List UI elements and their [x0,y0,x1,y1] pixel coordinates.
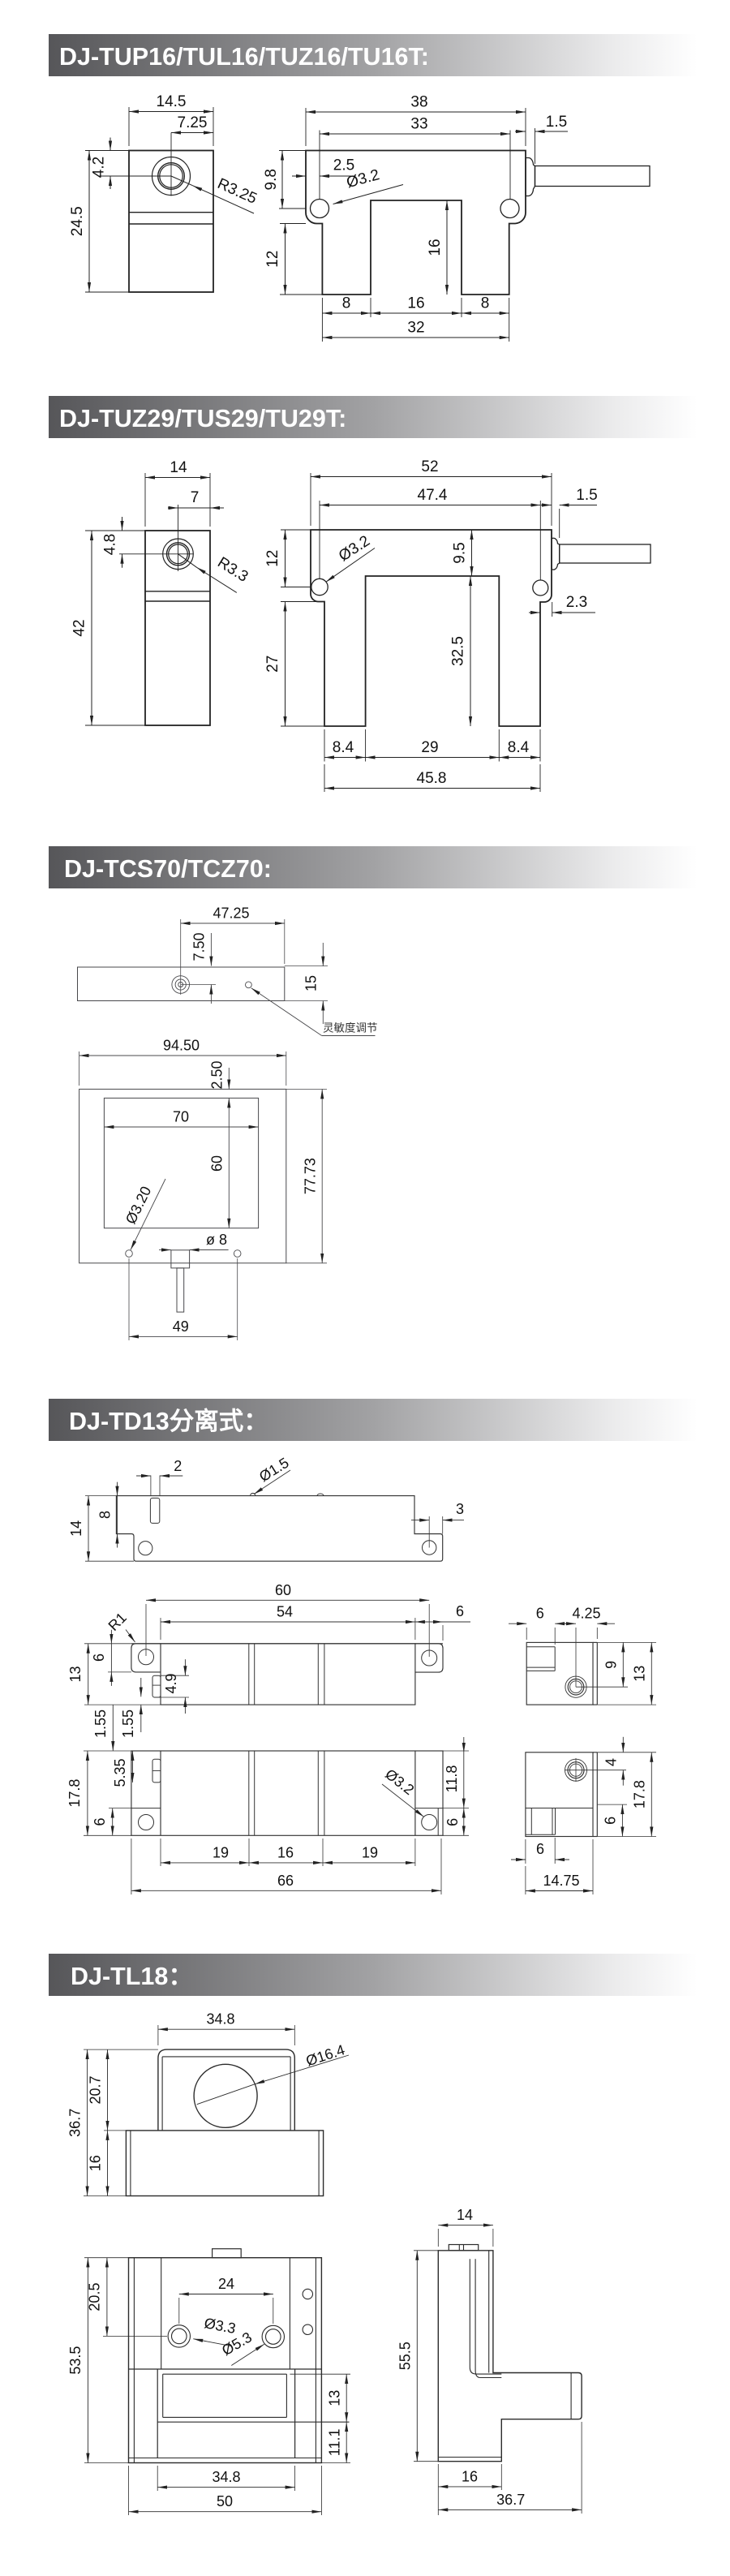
svg-text:66: 66 [277,1873,294,1889]
svg-text:53.5: 53.5 [67,2346,84,2375]
svg-text:6: 6 [456,1603,464,1619]
s2 dim 27 [281,601,318,603]
section header bar 3 [49,846,698,888]
s4 dim 8 [117,1496,118,1534]
svg-text:42: 42 [71,619,88,636]
s5 front upper block [158,2049,294,2131]
s4 dim 4.25 [596,1628,598,1639]
s4 bottom view inner verticals [160,1751,161,1835]
s4 dim 3 [442,1516,444,1534]
s2 dims 8.4 29 8.4 [324,729,325,762]
s3 dim 60 [228,1098,230,1228]
s4 dim 4.9 [161,1675,189,1676]
s4 divisions [248,1644,250,1705]
s3 dim 15 [285,965,328,967]
svg-text:11.8: 11.8 [444,1765,460,1793]
svg-text:12: 12 [264,550,281,567]
s4 end view A groove [526,1646,555,1648]
s5 front lower block [126,2131,323,2196]
s3 dim 7.50 [181,984,216,986]
s5 dim 36.7 [84,2049,158,2050]
s3 dim 47.25 [180,919,182,995]
svg-text:7.50: 7.50 [191,932,208,961]
s3 adjuster hole [246,982,252,988]
s4 dims 19 16 19 [160,1838,161,1866]
svg-text:15: 15 [303,975,320,991]
s4 top view left ear [131,1644,161,1672]
svg-text:34.8: 34.8 [212,2469,240,2485]
s2 hole centerlines [119,553,193,555]
s4 dim 6 end B right [597,1804,627,1805]
s2 dim 7 [178,507,211,509]
s5 side inner lines [488,2251,490,2373]
s4 dim 5.35 [131,1751,133,1783]
svg-text:7: 7 [191,489,200,506]
svg-text:14: 14 [68,1520,84,1537]
svg-text:2.5: 2.5 [333,157,354,174]
s4 side view outline [116,1496,442,1562]
s5 dim 14 [437,2229,439,2247]
s3 dim 77.73 [286,1088,327,1090]
s4 dim 13 left [84,1643,131,1645]
s5 top tab [213,2249,242,2258]
section header bar 1 [49,34,698,76]
svg-text:5.35: 5.35 [112,1758,128,1787]
svg-text:8.4: 8.4 [508,739,530,756]
svg-text:33: 33 [410,116,427,133]
svg-text:24.5: 24.5 [69,206,86,236]
svg-text:DJ-TL18：: DJ-TL18： [71,1963,193,1990]
s5 lens circle [194,2064,257,2127]
s2 dim 52 [310,473,311,526]
svg-text:19: 19 [362,1844,378,1860]
svg-text:DJ-TUP16/TUL16/TUZ16/TU16T:: DJ-TUP16/TUL16/TUZ16/TU16T: [59,43,429,71]
svg-text:17.8: 17.8 [67,1779,83,1808]
svg-text:3: 3 [456,1501,464,1517]
svg-text:36.7: 36.7 [496,2492,525,2508]
s4 dim 13 end A [628,1641,656,1643]
s2 front right hole [533,580,548,596]
svg-text:ø 8: ø 8 [206,1232,227,1248]
svg-text:20.5: 20.5 [87,2283,103,2312]
s4 dim 17.8 left [84,1750,131,1752]
s1 screw hole [152,157,191,196]
s1 side view body [129,151,213,293]
s5 bottom view inner edge lines [133,2258,135,2463]
svg-text:50: 50 [217,2493,233,2509]
s4 dim 1.55 b [140,1678,142,1697]
svg-text:灵敏度调节: 灵敏度调节 [323,1022,378,1034]
s1 dim 16 slot [446,200,448,295]
s4 dim 14 [85,1495,116,1497]
s4 dim 9 [597,1641,628,1643]
s4 dim 4 end B [622,1737,624,1752]
s1 leader R3.25 [193,186,255,213]
svg-text:4.8: 4.8 [102,534,119,555]
svg-text:8: 8 [481,295,490,312]
s5 side top tab [449,2245,478,2251]
svg-text:2: 2 [174,1458,182,1474]
svg-text:32: 32 [407,320,424,337]
s5 leader dia 16.4 [255,2055,349,2084]
svg-text:1.55: 1.55 [120,1709,136,1738]
s4 end view B body [526,1752,593,1837]
s2 dim 2.3 [552,602,553,617]
s3 connector pin [177,1268,184,1312]
s4 dim 6 top right [442,1625,444,1641]
s5 dim 16 side [437,2464,439,2515]
s2 side view body [145,531,210,725]
svg-text:1.5: 1.5 [546,114,567,131]
s1 hole centerlines [99,175,171,177]
s5 dim 20.5 [103,2257,129,2259]
svg-text:2.50: 2.50 [209,1060,225,1089]
s3 dim 94.50 [79,1051,80,1086]
s1 dim 38 [305,108,307,146]
svg-text:12: 12 [264,251,281,268]
s1 front view body outline [306,151,526,295]
svg-text:70: 70 [173,1109,189,1125]
s4 dim 14.75 [525,1866,526,1894]
svg-text:27: 27 [264,656,281,673]
s1 dim 2.5 [292,175,306,177]
s2 dim 32.5 [470,576,471,726]
svg-text:8.4: 8.4 [333,739,354,756]
svg-text:14.5: 14.5 [157,93,187,110]
s4 left ear hole [139,1649,154,1665]
s3 sensitivity adjust leader [251,988,322,1036]
s5 bottom view outer body [129,2258,322,2463]
svg-text:29: 29 [421,739,438,756]
svg-text:94.50: 94.50 [163,1038,200,1054]
s3 top view mounting hole [172,976,190,994]
section header bar 2 [49,396,698,438]
s1 cable [535,166,651,187]
svg-text:7.25: 7.25 [178,114,208,131]
svg-text:16: 16 [407,295,424,312]
s4 dim 66 [131,1838,132,1894]
svg-text:24: 24 [218,2276,234,2292]
s4 side right tab hole [423,1541,436,1555]
s5 leader dia 5.3 [231,2344,264,2365]
svg-text:11.1: 11.1 [327,2428,343,2456]
s5 dim 36.7 side [581,2422,582,2514]
s4 bottom rib [152,1759,161,1783]
s1 dim 4.2 [99,150,129,152]
s1 side view groove lines [129,212,213,213]
s5 slot lines [129,2368,322,2370]
s1 dim 1.5 [535,128,536,164]
s4 dim 6 end B bottom [525,1839,526,1864]
svg-text:DJ-TUZ29/TUS29/TU29T:: DJ-TUZ29/TUS29/TU29T: [59,405,346,432]
s4 top view rib [152,1675,161,1697]
svg-text:19: 19 [213,1844,229,1860]
s5 dim 24 [178,2298,180,2324]
svg-text:6: 6 [603,1817,619,1825]
s1 dim 14.5 [128,107,130,146]
svg-text:14.75: 14.75 [543,1873,579,1889]
svg-text:9.8: 9.8 [263,169,280,190]
svg-text:13: 13 [632,1666,648,1682]
s3 top view body [78,967,285,1001]
s2 dim 4.8 [119,530,145,531]
svg-text:8: 8 [342,295,351,312]
s2 leader dia 3.2 [326,548,375,583]
svg-text:36.7: 36.7 [67,2109,84,2137]
s1 dim 33 [319,131,320,200]
s1 dim 7.25 [171,132,213,134]
svg-text:16: 16 [427,239,444,256]
svg-text:47.25: 47.25 [213,905,249,922]
svg-text:13: 13 [327,2390,343,2406]
svg-text:45.8: 45.8 [417,770,447,787]
svg-text:14: 14 [457,2207,473,2223]
s2 dim 9.5 [471,530,473,576]
s4 leader dia 1.5 [254,1470,290,1494]
s5 dim 13 right [290,2373,350,2375]
s2 leader R3.3 [197,567,237,592]
s4 leader dia 3.2 bottom [382,1784,424,1817]
section header bar 4 [49,1399,698,1441]
svg-text:9.5: 9.5 [452,542,469,563]
svg-text:DJ-TCS70/TCZ70:: DJ-TCS70/TCZ70: [64,855,272,883]
s4 side rib slot [150,1498,159,1523]
s2 dim 47.4 [319,501,320,578]
s1 dim 24.5 [85,150,99,152]
s5 dim 50 [128,2466,130,2515]
s4 bottom view outer body [131,1751,443,1835]
s4 right hole centerline [428,1516,430,1548]
s3 connector block [171,1250,190,1268]
s3 dim 49 [128,1258,130,1340]
svg-text:1.55: 1.55 [92,1709,109,1738]
s2 dim 1.5 [559,509,560,538]
svg-text:6: 6 [92,1817,108,1826]
s2 dim 42 [85,530,119,531]
svg-text:4: 4 [603,1758,620,1766]
s4 bottom view ear lines [131,1808,161,1809]
svg-text:32.5: 32.5 [450,636,467,666]
s2 dim 14 [144,473,146,527]
svg-text:6: 6 [444,1818,461,1826]
svg-text:6: 6 [536,1606,544,1622]
svg-text:38: 38 [410,94,427,111]
s4 end view B groove [526,1808,593,1809]
s2 side view groove lines [145,591,210,592]
svg-text:47.4: 47.4 [418,487,448,504]
s4 end view A body [526,1642,593,1705]
s2 dim 45.8 [324,764,325,792]
s5 dim 11.1 [321,2462,350,2464]
s4 end view A hole [565,1676,586,1697]
s1 cable grommet [526,157,535,196]
svg-text:6: 6 [91,1654,107,1662]
s4 bottom right hole [422,1815,437,1830]
s2 screw hole [163,539,194,570]
s4 top view top edge [131,1643,443,1645]
svg-text:60: 60 [275,1582,291,1598]
s4 dim 54 [160,1618,161,1640]
s5 inner panel verticals [161,2258,162,2369]
s1 dim 32 [322,337,509,338]
s4 dim 1.55 a [112,1705,114,1751]
s3 left hole [126,1250,133,1258]
s3 dim 70 [104,1126,258,1128]
s3 dim dia 8 [159,1249,171,1251]
s5 front upper inner lines [161,2057,163,2131]
svg-text:34.8: 34.8 [206,2011,234,2028]
s3 dim 2.50 [228,1068,230,1089]
section header bar 5 [49,1954,698,1996]
svg-text:16: 16 [88,2155,104,2171]
s5 dim 34.8 top [157,2025,159,2045]
s4 dim 6 left [108,1671,131,1673]
s3 right hole [234,1250,241,1258]
s4 dim 11.8 right [443,1750,469,1752]
svg-text:20.7: 20.7 [88,2075,104,2104]
svg-text:2.3: 2.3 [566,594,587,611]
s5 leader dia 3.3 [193,2339,230,2346]
s5 indicator circles [303,2289,312,2299]
s4 side view top bump B [317,1494,324,1496]
svg-text:60: 60 [209,1155,225,1172]
svg-text:1.5: 1.5 [576,487,597,504]
s4 end A centerlines [575,1628,577,1687]
svg-text:13: 13 [67,1666,84,1682]
s1 dim 12 [280,223,306,225]
svg-text:49: 49 [173,1318,189,1335]
s4 bottom left hole [139,1815,154,1830]
s5 lower block inner lines [130,2131,131,2196]
svg-text:52: 52 [421,458,438,475]
s5 dim 55.5 [414,2250,438,2251]
s2 front view body outline [311,530,552,726]
s1 front right hole [500,200,519,218]
svg-text:54: 54 [277,1604,293,1620]
svg-text:4.9: 4.9 [163,1673,179,1693]
s4 dim 6 right [443,1834,469,1836]
svg-text:77.73: 77.73 [303,1158,319,1194]
svg-text:4.2: 4.2 [91,157,108,178]
s4 end view B hole [565,1759,587,1781]
s4 dim 6 bottom left [109,1808,131,1809]
s4 side view top bump A [251,1493,255,1495]
svg-text:8: 8 [97,1511,114,1519]
svg-text:4.25: 4.25 [572,1606,600,1622]
s5 dim 53.5 [84,2257,103,2259]
s4 side left tab hole [139,1542,152,1555]
s4 right ear hole [422,1650,437,1666]
s4 top view main body [161,1644,415,1705]
s5 dim 20.7 [104,2130,126,2131]
svg-text:DJ-TD13分离式：: DJ-TD13分离式： [69,1407,268,1435]
svg-text:55.5: 55.5 [397,2342,414,2370]
s4 dim 6 end A [526,1628,527,1640]
svg-text:9: 9 [603,1661,620,1669]
s5 dim 34.8 bottom [157,2466,158,2491]
s1 dims 8 16 8 [321,298,323,342]
s5 side view outline [438,2251,582,2462]
s1 front left hole [311,200,329,218]
s2 cable [560,544,651,563]
s4 dim 60 [145,1604,147,1656]
s2 front left hole [311,578,328,595]
s4 leader R1 [126,1630,135,1643]
svg-text:6: 6 [536,1841,544,1857]
s4 dim 2 [150,1476,152,1496]
s2 dim 12 [281,529,311,531]
s4 dim 17.8 end B [597,1752,656,1753]
s1 dim 9.8 [279,150,306,152]
s1 leader dia 3.2 [333,185,403,204]
svg-text:16: 16 [462,2468,478,2484]
s3 bottom view outer body [79,1089,286,1262]
s4 top view right ear [415,1644,443,1672]
svg-text:17.8: 17.8 [632,1780,648,1808]
s4 bottom divisions [248,1751,250,1835]
s5 screw hole right [262,2325,284,2347]
s5 dim 16 [107,2131,109,2196]
s3 bottom view inner window [104,1098,258,1228]
s5 screw hole left [168,2325,190,2347]
s2 cable grommet [552,538,560,570]
s3 leader dia 3.20 [131,1179,165,1250]
svg-text:14: 14 [170,459,187,476]
svg-text:16: 16 [277,1844,294,1860]
s4 end B centerlines [575,1758,577,1782]
